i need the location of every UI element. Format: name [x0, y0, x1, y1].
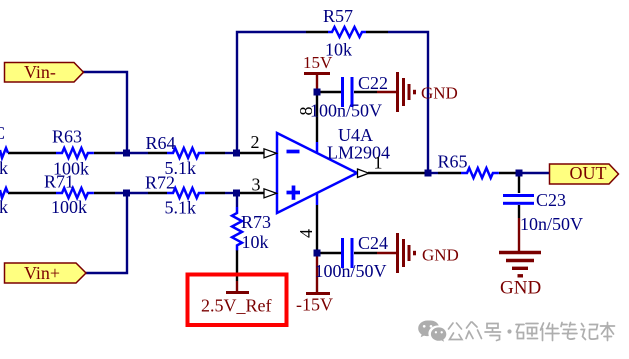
svg-text:C24: C24 [358, 233, 388, 253]
svg-text:R64: R64 [146, 133, 176, 153]
svg-text:10n/50V: 10n/50V [520, 214, 583, 234]
svg-text:C22: C22 [358, 73, 388, 93]
svg-text:5.1k: 5.1k [165, 198, 197, 218]
svg-text:2: 2 [251, 132, 260, 152]
svg-text:k: k [0, 158, 8, 178]
svg-text:R72: R72 [145, 173, 175, 193]
svg-text:k: k [0, 197, 8, 217]
svg-text:1: 1 [374, 153, 383, 173]
svg-text:C23: C23 [536, 190, 566, 210]
svg-text:4: 4 [296, 229, 316, 238]
svg-text:-15V: -15V [296, 295, 333, 315]
svg-text:100n/50V: 100n/50V [310, 101, 382, 121]
svg-text:Vin+: Vin+ [24, 263, 60, 283]
svg-text:2.5V_Ref: 2.5V_Ref [201, 296, 272, 316]
svg-text:R57: R57 [323, 6, 353, 26]
svg-text:GND: GND [421, 84, 458, 103]
svg-text:R63: R63 [52, 127, 82, 147]
svg-text:R73: R73 [241, 212, 271, 232]
svg-text:R65: R65 [438, 152, 468, 172]
svg-text:100k: 100k [51, 197, 87, 217]
svg-text:100n/50V: 100n/50V [315, 261, 387, 281]
svg-text:R71: R71 [44, 172, 74, 192]
svg-text:GND: GND [422, 246, 459, 265]
svg-text:Vin-: Vin- [24, 62, 56, 82]
svg-text:OUT: OUT [570, 163, 607, 183]
svg-text:10k: 10k [242, 232, 269, 252]
svg-text:C: C [0, 123, 5, 143]
svg-text:15V: 15V [303, 53, 333, 72]
svg-text:3: 3 [252, 175, 261, 195]
svg-text:GND: GND [500, 278, 541, 299]
svg-text:8: 8 [296, 107, 316, 116]
